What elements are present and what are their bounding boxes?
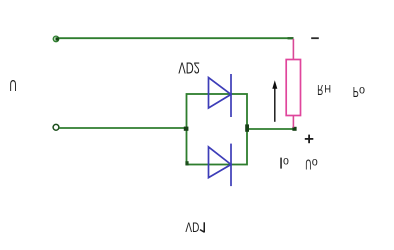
svg-text:R: R <box>317 81 323 98</box>
svg-text:o: o <box>283 155 289 169</box>
svg-text:o: o <box>359 84 365 98</box>
svg-text:U: U <box>9 76 16 93</box>
svg-text:P: P <box>353 83 359 99</box>
svg-text:VD2: VD2 <box>178 59 199 76</box>
svg-text:VD: VD <box>185 220 199 236</box>
svg-text:U: U <box>305 156 311 172</box>
svg-text:H: H <box>324 82 331 94</box>
svg-text:o: o <box>312 156 318 170</box>
